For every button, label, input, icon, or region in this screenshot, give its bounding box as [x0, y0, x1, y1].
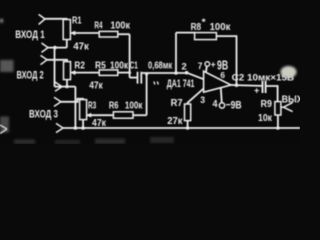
- wire R4 to summing bus: [118, 33, 130, 35]
- artifact bottom noise 2: [55, 140, 80, 144]
- artifact bottom noise 4: [150, 137, 174, 143]
- pin 7 terminal circle: [205, 62, 210, 67]
- wire ground bus lower vertical: [74, 87, 76, 128]
- svg-text:ВХОД 1: ВХОД 1: [15, 29, 44, 41]
- connector XS1 input 1 signal pin: [39, 14, 45, 24]
- svg-text:9В: 9В: [217, 57, 228, 72]
- svg-text:С1: С1: [130, 61, 138, 72]
- svg-text:10к: 10к: [258, 113, 273, 124]
- svg-text:2: 2: [182, 61, 187, 72]
- svg-text:−9В: −9В: [226, 99, 242, 111]
- svg-text:R7: R7: [171, 98, 183, 109]
- node junction riser: [145, 73, 148, 76]
- svg-text:47к: 47к: [73, 42, 90, 53]
- connector XS1 input 1 ground pin: [42, 43, 49, 52]
- wire R2 wiper to R5: [71, 72, 99, 74]
- artifact gray blob left edge upper: [0, 60, 14, 72]
- svg-text:R1: R1: [72, 16, 82, 27]
- wire riser R6 up to C1 output node: [146, 74, 148, 115]
- wire R7 bottom to rail: [187, 121, 189, 128]
- node junction feedback: [174, 71, 178, 75]
- potentiometer R2 body: [64, 62, 71, 80]
- resistor R4 body: [99, 31, 118, 37]
- svg-text:47к: 47к: [92, 118, 107, 129]
- artifact gray blob left edge lower: [0, 117, 9, 133]
- node junction R9 ground: [276, 126, 280, 130]
- svg-text:+: +: [254, 86, 260, 97]
- svg-text:R8: R8: [191, 22, 202, 33]
- wire R3 bottom to ground rail: [82, 120, 84, 128]
- wire input1 signal to R1 top: [45, 19, 67, 20]
- svg-text:ВХОД 2: ВХОД 2: [17, 70, 44, 82]
- wire feedback top to R8: [176, 32, 195, 34]
- svg-text:100к: 100к: [125, 101, 143, 112]
- node junction feedback tap: [235, 83, 239, 87]
- artifact quote ticks: [154, 82, 159, 85]
- pin 7 lead: [205, 66, 208, 72]
- node junction R7 ground: [186, 126, 190, 130]
- wire summing node to C1: [130, 77, 137, 79]
- svg-text:+: +: [211, 58, 216, 69]
- svg-text:R4: R4: [94, 20, 102, 31]
- resistor R8 body: [195, 33, 217, 40]
- node junction pin2 bend: [185, 71, 189, 75]
- svg-text:0,68мк: 0,68мк: [148, 60, 173, 71]
- wire pin 2 lead diagonal: [187, 73, 204, 80]
- svg-text:7: 7: [198, 61, 203, 72]
- wire output pin 6: [231, 84, 262, 87]
- resistor R9 body: [275, 102, 281, 115]
- potentiometer R3 body: [80, 100, 87, 120]
- wire input2 signal to R2 top: [47, 60, 67, 62]
- wire R9 bottom to rail: [277, 115, 279, 128]
- connector XS2 input 2 signal pin: [41, 55, 48, 64]
- node junction R3 ground: [81, 126, 85, 130]
- svg-text:R3: R3: [88, 101, 96, 112]
- artifact bright mark bottom left edge: [0, 125, 7, 134]
- wire pin 3 lead diagonal: [188, 89, 204, 105]
- capacitor C2 plates: [263, 81, 266, 93]
- svg-text:*: *: [202, 17, 207, 27]
- artifact bottom noise 1: [14, 140, 35, 145]
- connector output jack: [281, 103, 293, 112]
- node junction summing: [128, 71, 131, 74]
- resistor R7 body: [185, 104, 191, 121]
- op-amp DA1 triangle: [204, 71, 231, 92]
- wire R1 wiper to R4: [72, 32, 100, 34]
- potentiometer R1 wiper arrow: [71, 31, 75, 34]
- wire ground bus upper vertical: [54, 48, 56, 87]
- svg-text:ВЫХОД: ВЫХОД: [282, 94, 300, 105]
- connector XS2 input 2 ground pin: [55, 82, 62, 91]
- svg-text:R5: R5: [95, 60, 106, 71]
- potentiometer R3 wiper arrow: [87, 114, 91, 117]
- wire C1 to inverting input: [142, 72, 186, 74]
- artifact washed blob 15V: [281, 66, 297, 78]
- wire C2 to R9 top: [267, 86, 278, 102]
- connector XS3 input 3 signal pin: [54, 97, 61, 106]
- pin 4 terminal circle: [219, 103, 224, 108]
- svg-text:47к: 47к: [89, 80, 103, 91]
- svg-text:R9: R9: [261, 99, 273, 110]
- node junction R2 bottom: [65, 85, 68, 88]
- artifact bottom noise 3: [95, 139, 125, 145]
- resistor R5 body: [99, 70, 118, 76]
- wire R1 bottom to ground link: [66, 40, 68, 48]
- svg-text:100к: 100к: [110, 60, 129, 71]
- potentiometer R2 wiper arrow: [71, 71, 75, 74]
- potentiometer R1 body: [63, 20, 70, 40]
- resistor R6 body: [113, 112, 133, 118]
- svg-text:R6: R6: [109, 100, 119, 111]
- svg-text:27к: 27к: [167, 116, 183, 127]
- connector XS3 input 3 ground pin: [56, 123, 63, 132]
- wire R2 bottom to ground line: [66, 80, 68, 87]
- svg-text:3: 3: [200, 95, 205, 106]
- svg-text:100к: 100к: [210, 22, 232, 33]
- svg-text:4: 4: [213, 99, 218, 110]
- wire summing bus vertical: [129, 34, 131, 77]
- svg-text:100к: 100к: [110, 20, 130, 31]
- node junction ground ch1: [53, 46, 57, 50]
- wire R5 to summing bus: [118, 72, 130, 74]
- capacitor C1 plates: [138, 72, 142, 84]
- svg-text:ВХОД 3: ВХОД 3: [29, 109, 58, 121]
- svg-text:ДА1 741: ДА1 741: [167, 78, 195, 90]
- svg-text:R2: R2: [74, 60, 85, 71]
- artifact left edge tick: [0, 19, 3, 23]
- wire R8 right to output: [216, 36, 236, 85]
- wire R3 wiper to R6: [87, 114, 113, 116]
- wire feedback left vertical: [175, 33, 177, 73]
- wire input3 signal to R3 top: [61, 99, 83, 102]
- wire ground rail: [63, 127, 300, 129]
- wire input2 ground line: [55, 86, 76, 88]
- pin 4 lead: [221, 88, 222, 103]
- wire input1 ground line: [48, 47, 67, 49]
- wire R6 right to riser: [133, 114, 147, 116]
- node junction bus to rail: [74, 126, 78, 130]
